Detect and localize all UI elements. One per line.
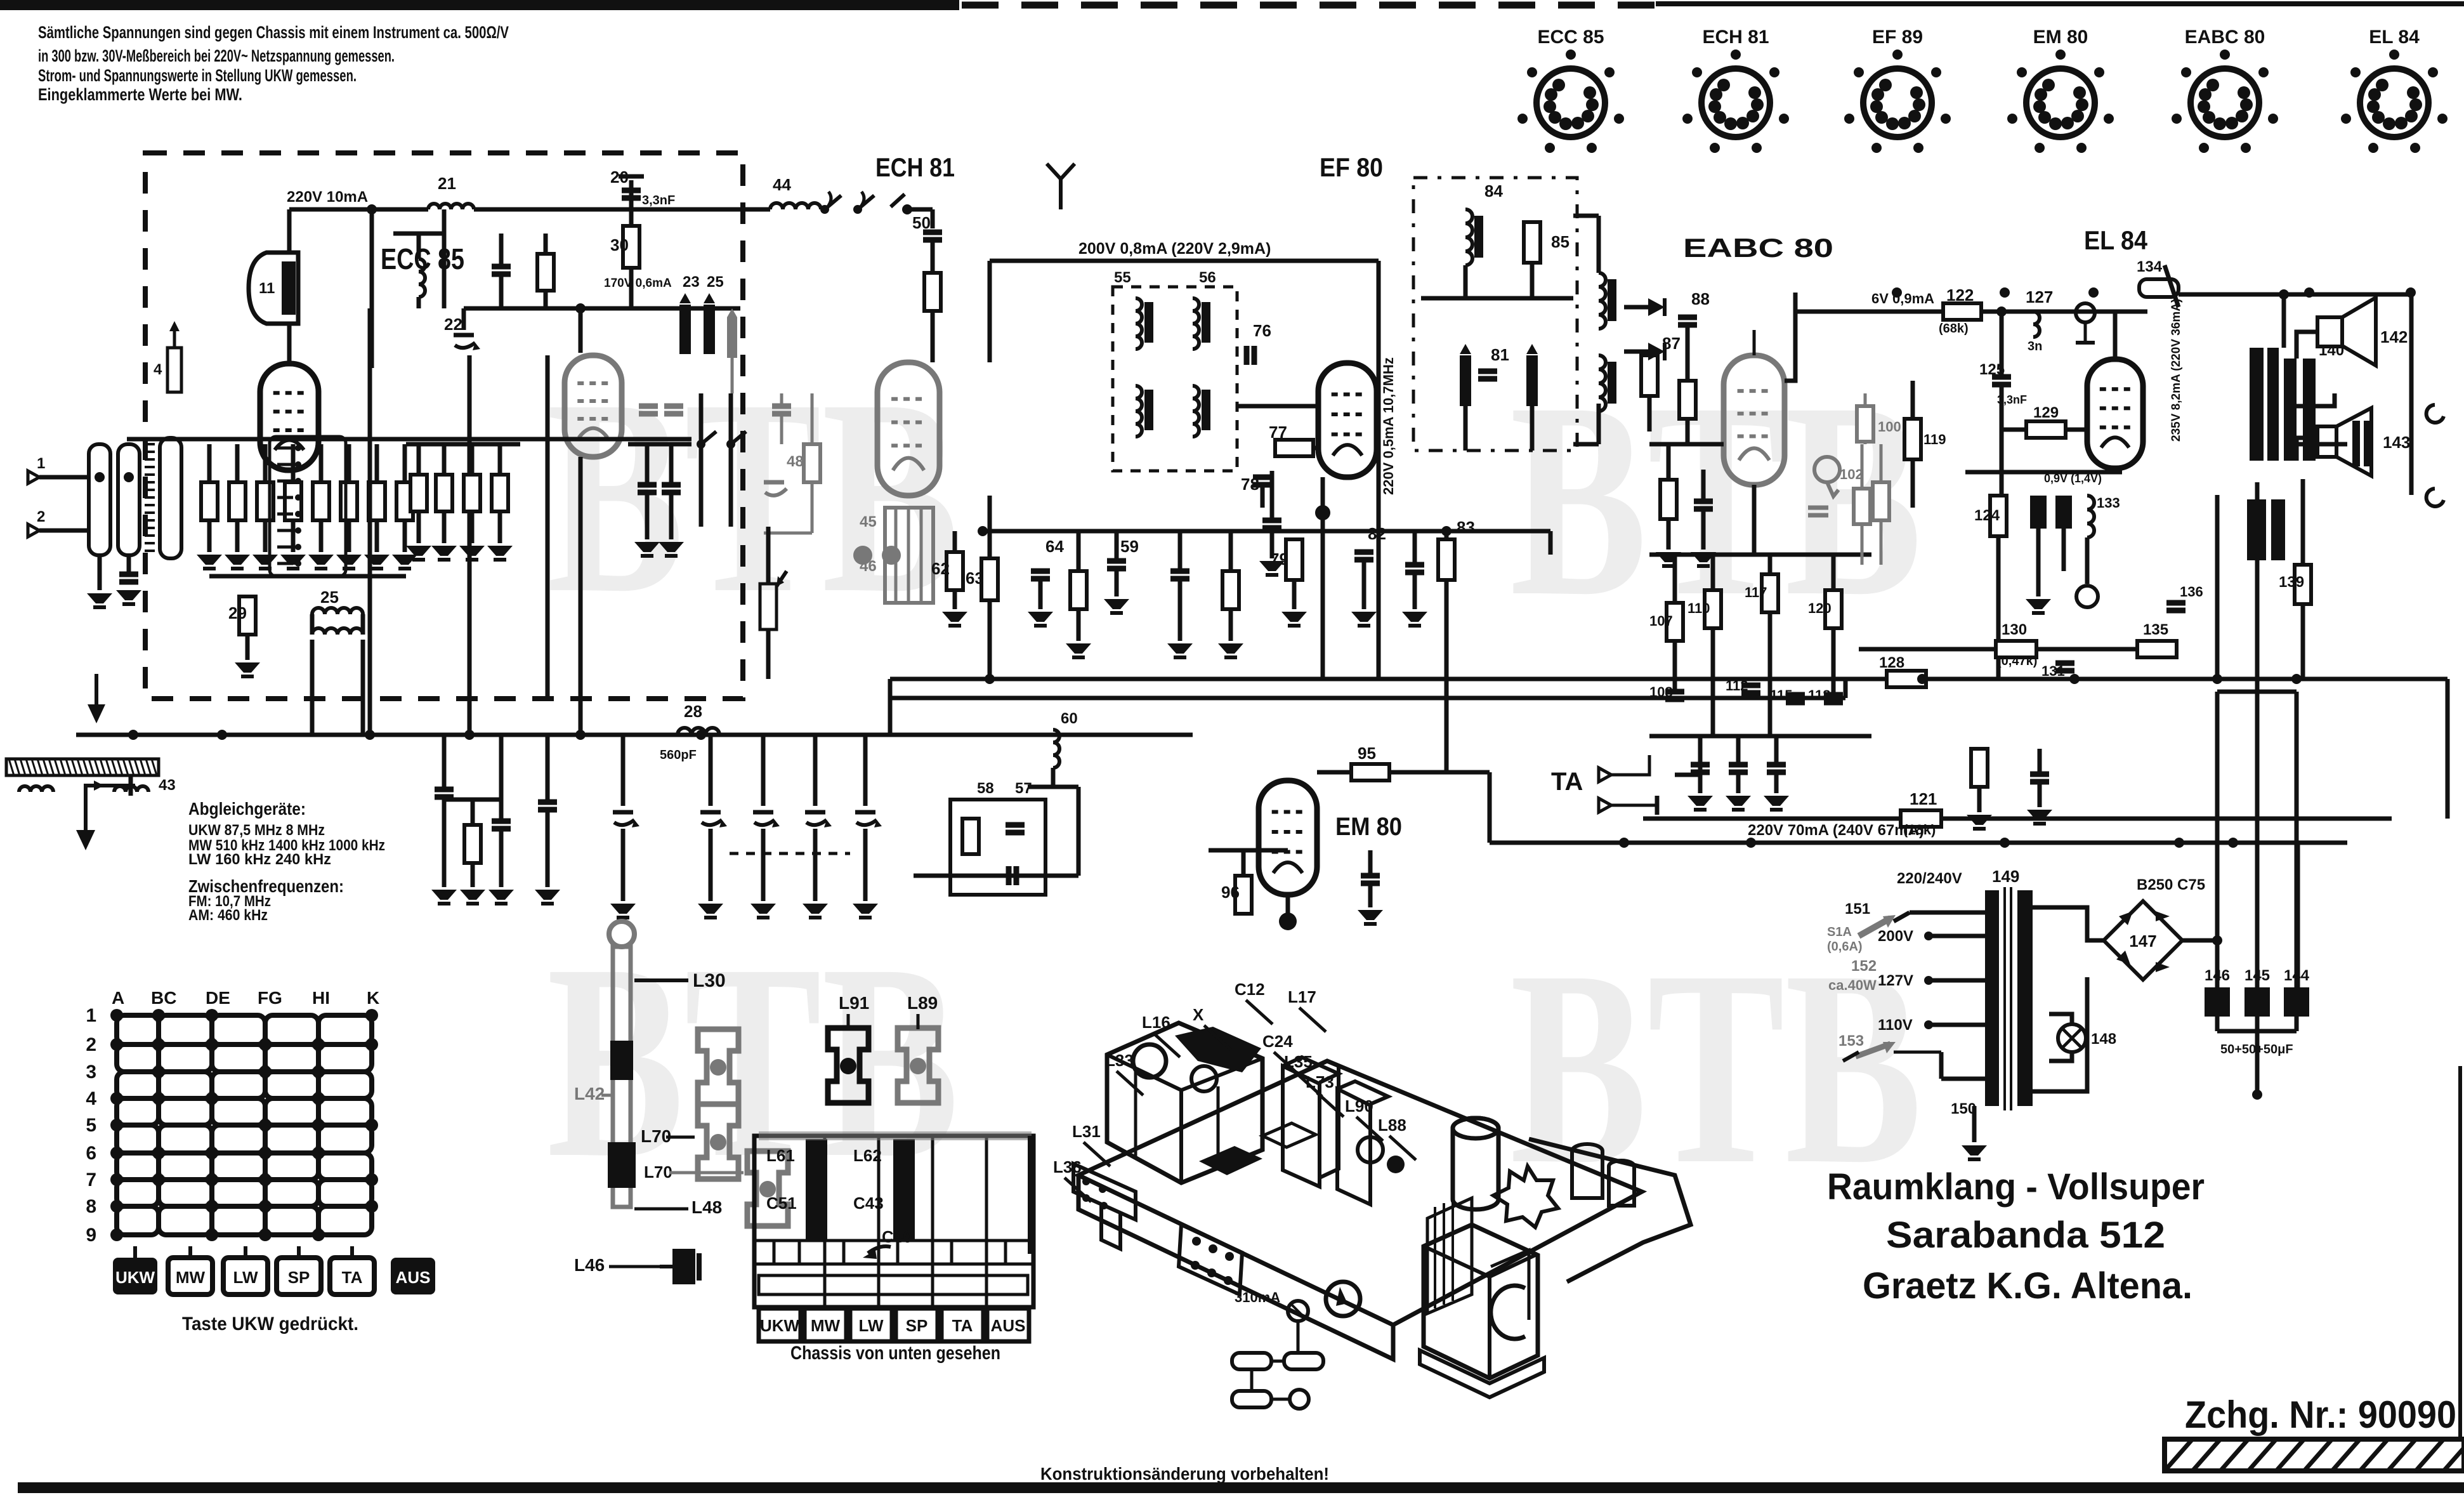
dashed divider bbox=[369, 406, 372, 699]
transformer core line bbox=[145, 466, 155, 468]
speaker coupling bars bbox=[2352, 421, 2360, 466]
tube socket ECH 81 bbox=[1701, 69, 1770, 137]
svg-text:UKW: UKW bbox=[760, 1316, 800, 1335]
wire bbox=[361, 640, 365, 735]
wire bbox=[347, 520, 351, 552]
wire bbox=[403, 520, 407, 552]
svg-text:85: 85 bbox=[1551, 232, 1569, 251]
wire bbox=[709, 735, 713, 806]
svg-text:SP: SP bbox=[906, 1316, 928, 1335]
switch contact bbox=[701, 431, 716, 444]
resistor 33 bbox=[537, 254, 554, 291]
TA terminal upper bbox=[1599, 768, 1611, 782]
wire gray bbox=[1880, 444, 1883, 565]
wire bbox=[761, 735, 766, 806]
solder plate hole bbox=[1209, 1244, 1217, 1253]
keyboard key LW bbox=[850, 1308, 892, 1341]
matrix node bbox=[259, 1147, 272, 1159]
wire bbox=[629, 209, 634, 226]
svg-text:131: 131 bbox=[2041, 663, 2065, 679]
matrix cell bbox=[265, 1153, 318, 1180]
wire bbox=[1413, 531, 1417, 565]
svg-text:LW 160 kHz 240 kHz: LW 160 kHz 240 kHz bbox=[188, 851, 331, 868]
solder plate hole bbox=[1225, 1252, 1234, 1261]
wire B+ left rail bbox=[1795, 310, 2147, 314]
svg-text:95: 95 bbox=[1358, 744, 1376, 763]
wire bbox=[1209, 848, 1288, 853]
wire bbox=[375, 444, 379, 482]
junction bbox=[1892, 287, 1902, 298]
matrix cell bbox=[265, 1044, 318, 1072]
keyboard top shading bbox=[759, 1131, 1032, 1140]
ground bbox=[659, 542, 684, 552]
matrix cell bbox=[318, 1153, 372, 1180]
ground bbox=[853, 904, 878, 914]
svg-text:DE: DE bbox=[206, 988, 230, 1008]
svg-text:L36: L36 bbox=[1053, 1157, 1082, 1176]
wire bbox=[699, 393, 704, 527]
chassis knob bbox=[1326, 1282, 1360, 1316]
IF core bbox=[1202, 390, 1210, 430]
svg-text:60: 60 bbox=[1061, 710, 1078, 727]
ferrite rod hatch bbox=[72, 759, 77, 775]
junction bbox=[2174, 838, 2184, 848]
svg-text:11: 11 bbox=[259, 280, 275, 297]
capacitor 57b bbox=[1006, 866, 1012, 885]
matrix cell bbox=[265, 1180, 318, 1206]
svg-text:K: K bbox=[367, 988, 379, 1008]
svg-text:143: 143 bbox=[2383, 433, 2410, 452]
leader L30 bbox=[634, 978, 688, 982]
leader L46 bbox=[609, 1265, 660, 1268]
FM tuner dashed enclosure bbox=[145, 153, 743, 699]
ground bbox=[280, 555, 306, 565]
resistor 30 bbox=[623, 226, 639, 268]
switch contact bbox=[277, 562, 293, 565]
wire bbox=[2217, 690, 2297, 694]
switch contact bbox=[277, 529, 293, 532]
wire bbox=[417, 444, 421, 475]
ferrite rod hatch bbox=[77, 759, 82, 775]
chassis pointer bar bbox=[1028, 1136, 1035, 1254]
svg-text:77: 77 bbox=[1269, 423, 1287, 442]
wire bbox=[2036, 529, 2041, 596]
matrix node bbox=[110, 1173, 123, 1186]
matrix cell bbox=[117, 1153, 159, 1180]
capacitor antenna bbox=[119, 572, 138, 577]
svg-text:L46: L46 bbox=[574, 1255, 605, 1275]
ground bbox=[803, 904, 828, 914]
transformer core line bbox=[145, 527, 155, 529]
matrix cell bbox=[318, 1044, 372, 1072]
wire heater bus bbox=[1490, 841, 2347, 845]
capacitor AF bbox=[1767, 762, 1786, 768]
switch 153 (gray) bbox=[1856, 1044, 1891, 1057]
matrix cell bbox=[318, 1015, 372, 1044]
resistor 124 bbox=[1990, 496, 2007, 536]
keyboard shelf line bbox=[754, 1239, 1033, 1242]
wire bbox=[499, 234, 504, 267]
tuning core bbox=[1460, 355, 1471, 406]
resistor 63 bbox=[981, 558, 998, 600]
capacitor padder bbox=[538, 800, 557, 805]
wire bbox=[2215, 692, 2220, 987]
wire bbox=[931, 311, 935, 362]
tuning core bbox=[1526, 355, 1538, 406]
matrix node bbox=[152, 1173, 165, 1186]
capacitor 80 bbox=[1405, 562, 1424, 568]
svg-text:AUS: AUS bbox=[991, 1316, 1026, 1335]
wire IF B+ vertical bbox=[1377, 287, 1381, 679]
junction bbox=[2279, 289, 2289, 300]
wire bbox=[499, 274, 504, 308]
svg-text:50: 50 bbox=[912, 213, 931, 232]
wire bbox=[546, 810, 550, 887]
cap 101 (gray) bbox=[1808, 506, 1828, 510]
capacitor 52 (gray) bbox=[772, 404, 791, 409]
matrix node bbox=[110, 1119, 123, 1131]
output transformer 140 bar1 bbox=[2250, 348, 2264, 461]
switch contact bbox=[277, 447, 293, 450]
ferrite rod hatch bbox=[152, 759, 157, 775]
ground bbox=[942, 612, 967, 622]
ground bbox=[1691, 552, 1716, 562]
svg-text:4: 4 bbox=[86, 1088, 96, 1109]
chassis leader line bbox=[1299, 1008, 1326, 1032]
resistor 109 (gray) bbox=[1854, 489, 1870, 524]
matrix cell bbox=[117, 1125, 159, 1153]
wire bbox=[1965, 470, 2122, 475]
ferrite rod hatch bbox=[26, 759, 31, 775]
svg-text:Abgleichgeräte:: Abgleichgeräte: bbox=[188, 799, 306, 819]
wire bbox=[2085, 537, 2090, 584]
matrix cell bbox=[159, 1206, 212, 1235]
ferrite rod hatch bbox=[129, 759, 134, 775]
svg-text:45: 45 bbox=[860, 513, 877, 530]
svg-text:L90: L90 bbox=[1345, 1097, 1373, 1116]
chassis tuner top blob bbox=[1175, 1027, 1261, 1072]
ground bbox=[2027, 810, 2052, 820]
ferrite rod hatch bbox=[83, 759, 88, 775]
coil 84 bbox=[1465, 209, 1472, 265]
chassis left bracket bbox=[1073, 1164, 1136, 1220]
wire bbox=[1573, 214, 1599, 218]
mains transformer 149 secondary bbox=[2017, 890, 2033, 1106]
trimmer capacitor bbox=[613, 810, 633, 815]
terminal C lower bbox=[2427, 489, 2444, 506]
svg-text:83: 83 bbox=[1457, 518, 1475, 537]
bridge rectifier 147 bbox=[2104, 901, 2182, 980]
wire AM bus bbox=[76, 733, 1193, 737]
wire bbox=[544, 234, 548, 254]
wire bbox=[1753, 330, 1756, 355]
matrix cell bbox=[265, 1098, 318, 1125]
matrix node bbox=[206, 1228, 218, 1241]
matrix cell bbox=[159, 1044, 212, 1072]
trimmer 22 bbox=[454, 333, 474, 338]
wire AF bus left bbox=[890, 677, 1854, 682]
tube socket ECC 85 bbox=[1537, 69, 1605, 137]
wire bbox=[579, 308, 583, 353]
wire bbox=[442, 444, 447, 475]
wire TA feed bbox=[1675, 736, 1700, 775]
diode 92 bbox=[1648, 298, 1665, 316]
wire bbox=[1832, 555, 1836, 590]
wire AF coupling bbox=[1785, 293, 1795, 381]
chassis leader line bbox=[1295, 1072, 1322, 1097]
wire bbox=[235, 444, 240, 482]
wire bbox=[729, 393, 733, 527]
ground bbox=[610, 904, 636, 914]
ferrite rod hatch bbox=[9, 759, 14, 775]
wire bbox=[1894, 912, 1910, 921]
wire bbox=[1711, 555, 1715, 590]
svg-text:2: 2 bbox=[86, 1034, 96, 1055]
wire AVC bus bbox=[983, 529, 1550, 534]
matrix node bbox=[206, 1092, 218, 1105]
ratio det coil bbox=[1599, 273, 1606, 329]
matrix node bbox=[365, 1038, 378, 1051]
matrix cell bbox=[212, 1153, 265, 1180]
ground bbox=[750, 904, 776, 914]
junction bbox=[464, 730, 475, 740]
wire bbox=[766, 629, 771, 679]
chassis leader line bbox=[1356, 1117, 1383, 1141]
coil 44 bbox=[770, 203, 821, 209]
svg-text:29: 29 bbox=[228, 603, 247, 622]
ground bbox=[406, 546, 431, 556]
junction bbox=[1279, 912, 1297, 930]
wire bbox=[2301, 604, 2305, 679]
matrix node bbox=[312, 1038, 325, 1051]
wire bbox=[1774, 736, 1779, 765]
IF coil bbox=[1136, 386, 1142, 437]
capacitor 78 bbox=[1253, 475, 1272, 480]
resistor front-end bbox=[201, 482, 218, 520]
matrix node bbox=[259, 1173, 272, 1186]
matrix cell bbox=[318, 1125, 372, 1153]
wire bbox=[291, 520, 296, 552]
output transformer 140 lower A bbox=[2247, 499, 2266, 560]
wire bbox=[375, 520, 379, 552]
wire bbox=[813, 829, 818, 901]
resistor 58 bbox=[962, 819, 979, 854]
wire bbox=[2113, 312, 2118, 359]
ground bbox=[1402, 612, 1427, 622]
junction bbox=[2069, 674, 2080, 684]
junction bbox=[902, 204, 912, 214]
keyboard key SP bbox=[896, 1308, 938, 1341]
chassis leader line bbox=[1117, 1071, 1143, 1095]
switch cluster box bbox=[950, 800, 1045, 895]
wire bbox=[1178, 531, 1183, 571]
wire bbox=[1270, 528, 1275, 558]
wire bbox=[863, 735, 868, 806]
resistor 87 bbox=[1641, 355, 1658, 396]
wire bbox=[246, 635, 250, 660]
svg-text:151: 151 bbox=[1845, 900, 1870, 918]
matrix node bbox=[152, 1092, 165, 1105]
wire bbox=[1286, 895, 1290, 917]
ground bbox=[431, 546, 457, 556]
antenna terminal 1 bbox=[28, 471, 39, 484]
wire mid rail bbox=[464, 306, 740, 311]
chassis plate outline bbox=[1078, 1061, 1642, 1325]
wire bbox=[2038, 749, 2042, 774]
wire bbox=[1698, 736, 1703, 765]
mains transformer 149 primary bbox=[1985, 890, 1999, 1106]
wire bbox=[2038, 782, 2042, 807]
svg-text:C43: C43 bbox=[853, 1194, 884, 1213]
svg-text:220V 70mA (240V 67mA): 220V 70mA (240V 67mA) bbox=[1748, 822, 1924, 839]
ferrite rod hatch bbox=[32, 759, 37, 775]
resistor 29 bbox=[239, 596, 256, 635]
dashed link bbox=[730, 852, 850, 855]
leader L48 bbox=[634, 1208, 688, 1211]
EF80 IF dashed box bbox=[1413, 178, 1577, 451]
IF core bbox=[1144, 302, 1153, 343]
pilot lamp drawing bbox=[1288, 1301, 1308, 1321]
wire bbox=[1972, 1106, 1977, 1142]
wire bbox=[931, 209, 935, 228]
solder plate hole bbox=[1192, 1237, 1201, 1246]
wire bbox=[498, 444, 502, 475]
ferrite rod hatch bbox=[146, 759, 151, 775]
svg-text:124: 124 bbox=[1974, 507, 2000, 524]
capacitor 118 bbox=[1824, 692, 1843, 698]
matrix cell bbox=[318, 1098, 372, 1125]
matrix cell bbox=[159, 1125, 212, 1153]
resistor FM bbox=[492, 475, 508, 511]
svg-text:4: 4 bbox=[154, 361, 162, 378]
IF coil bbox=[1136, 298, 1142, 349]
wire bbox=[544, 291, 548, 308]
wire bbox=[1768, 612, 1773, 736]
svg-text:L62: L62 bbox=[853, 1146, 882, 1165]
tone pot bbox=[2076, 303, 2095, 322]
wire B+ rail bbox=[990, 259, 1379, 263]
ground bbox=[1104, 599, 1129, 609]
svg-text:5: 5 bbox=[86, 1115, 96, 1136]
ferrite core L70 upper bbox=[698, 1029, 738, 1104]
switch contact bbox=[891, 194, 905, 207]
wire bbox=[417, 297, 421, 308]
svg-text:L73: L73 bbox=[1306, 1072, 1334, 1091]
ground bbox=[431, 890, 457, 900]
IF transformer dashed box bbox=[1113, 287, 1237, 471]
tube socket EM 80 bbox=[2026, 69, 2095, 137]
svg-text:HI: HI bbox=[312, 988, 330, 1008]
ground bbox=[1218, 643, 1243, 654]
capacitor 88 bbox=[1678, 315, 1697, 320]
matrix cell bbox=[117, 1015, 159, 1044]
leader bbox=[917, 1014, 920, 1029]
ground bbox=[1167, 643, 1193, 654]
tap dot bbox=[1924, 976, 1933, 985]
chassis deck components bbox=[1199, 1146, 1262, 1175]
svg-text:3: 3 bbox=[86, 1062, 96, 1083]
wire supply vertical bbox=[2295, 692, 2299, 843]
antenna input transformer bbox=[89, 444, 110, 555]
wire gray bbox=[731, 358, 734, 393]
wire bbox=[546, 355, 550, 698]
wire bbox=[1242, 850, 1246, 876]
matrix cell bbox=[159, 1153, 212, 1180]
chassis leader line bbox=[1274, 1052, 1301, 1076]
wire bbox=[1413, 572, 1417, 609]
svg-text:560pF: 560pF bbox=[660, 748, 697, 762]
matrix node bbox=[110, 1200, 123, 1213]
capacitor 136 bbox=[2166, 600, 2185, 606]
ground bbox=[235, 662, 260, 673]
wire bbox=[2215, 1017, 2220, 1031]
capacitor 59 bbox=[1107, 558, 1126, 564]
matrix node bbox=[365, 1173, 378, 1186]
wire switch top link bbox=[127, 437, 691, 442]
capacitor 131 block bbox=[2030, 496, 2047, 529]
wire bbox=[2255, 1031, 2260, 1095]
ground bbox=[1259, 561, 1285, 571]
svg-text:121: 121 bbox=[1910, 789, 1937, 808]
svg-text:C51: C51 bbox=[766, 1194, 797, 1213]
ferrite rod hatch bbox=[100, 759, 105, 775]
resistor front-end bbox=[396, 482, 413, 520]
coil block bbox=[160, 438, 181, 558]
svg-text:78: 78 bbox=[1241, 475, 1259, 494]
junction bbox=[1917, 674, 1927, 684]
wire bbox=[444, 798, 501, 802]
capacitor 81 bbox=[1478, 369, 1497, 374]
switch contact bbox=[858, 195, 874, 209]
capacitor 125 bbox=[1992, 374, 2011, 380]
coil 31 bbox=[419, 259, 425, 297]
capacitor padder bbox=[435, 787, 454, 793]
matrix node bbox=[365, 1009, 378, 1022]
svg-text:149: 149 bbox=[1992, 867, 2019, 886]
svg-text:153: 153 bbox=[1838, 1032, 1864, 1050]
svg-text:127V: 127V bbox=[1878, 972, 1913, 989]
wire antenna bbox=[39, 529, 89, 533]
ground bbox=[1656, 552, 1681, 562]
wire bbox=[2000, 385, 2004, 430]
wire antenna bbox=[39, 475, 89, 480]
tube EM80 bbox=[1259, 780, 1317, 895]
svg-text:139: 139 bbox=[2279, 574, 2304, 591]
junction bbox=[2406, 287, 2416, 298]
wire to rectifier bbox=[2033, 907, 2104, 940]
svg-text:59: 59 bbox=[1120, 537, 1139, 556]
wire bbox=[207, 444, 212, 482]
junction bbox=[575, 303, 586, 313]
wire bbox=[1701, 509, 1706, 550]
chassis leader line bbox=[1246, 1000, 1273, 1024]
svg-text:EF 89: EF 89 bbox=[1872, 27, 1923, 48]
wire bbox=[1597, 404, 1601, 444]
resistor 48 (gray) bbox=[804, 444, 820, 482]
wire bbox=[863, 829, 868, 901]
matrix node bbox=[259, 1065, 272, 1078]
resistor 119 bbox=[1904, 419, 1921, 459]
wire bbox=[1844, 679, 1848, 698]
wire gray bbox=[780, 393, 783, 406]
wire bbox=[1624, 305, 1648, 310]
wire bbox=[1911, 381, 1915, 419]
ground bbox=[252, 555, 278, 565]
keyboard inner slots bbox=[774, 1241, 1006, 1264]
chassis leader line bbox=[1065, 1178, 1091, 1202]
junction bbox=[2304, 287, 2314, 298]
resistor front-end bbox=[369, 482, 385, 520]
